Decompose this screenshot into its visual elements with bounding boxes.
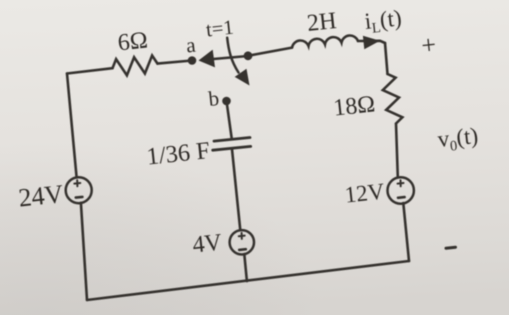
wire node b to capacitor: [227, 101, 232, 139]
wire right top corner down: [385, 43, 388, 74]
wire 18ohm to 12V source: [396, 124, 398, 178]
4V minus sign: [239, 248, 246, 251]
wire bottom rail: [87, 261, 409, 300]
capacitor 1/36F bottom plate: [213, 146, 251, 150]
wire 24V to bottom left corner: [81, 203, 87, 300]
voltage source 4V circle: [230, 230, 254, 254]
svg-text:18Ω: 18Ω: [332, 91, 376, 121]
24V plus sign: [74, 180, 80, 186]
minus sign of vo(t): [446, 247, 456, 248]
switch motion arrowhead: [235, 69, 250, 86]
svg-text:t=1: t=1: [205, 17, 235, 42]
voltage source 12V circle: [388, 177, 414, 203]
wire 12V to bottom right corner: [403, 203, 409, 261]
12V plus sign: [398, 180, 404, 186]
node a dot: [188, 56, 197, 65]
svg-text:4V: 4V: [191, 230, 224, 259]
svg-text:+: +: [420, 30, 438, 60]
switch pivot dot: [244, 51, 253, 60]
4V plus sign: [239, 233, 245, 239]
switch blade arrowhead: [199, 50, 216, 68]
wire inductor to corner: [358, 41, 385, 43]
capacitor 1/36F top plate: [214, 138, 250, 142]
node b dot: [222, 97, 231, 106]
wire left side down: [67, 74, 77, 178]
wire 4V to bottom rail: [244, 254, 247, 281]
wire resistor to node a: [158, 61, 193, 64]
svg-text:12V: 12V: [344, 179, 386, 208]
svg-text:6Ω: 6Ω: [117, 28, 149, 57]
voltage source 24V circle: [66, 177, 92, 203]
wire top-left horizontal: [67, 68, 113, 73]
24V minus sign: [76, 196, 83, 199]
12V minus sign: [398, 196, 405, 199]
resistor 6ohm: [113, 56, 158, 76]
inductor 2H: [292, 35, 358, 47]
resistor 18ohm: [383, 74, 403, 124]
svg-text:2H: 2H: [306, 8, 338, 37]
switch motion arc: [227, 38, 238, 73]
wire capacitor to 4V source: [232, 148, 240, 230]
wire pivot to inductor: [248, 48, 292, 56]
switch blade wire: [214, 56, 249, 59]
current arrow iL: [363, 36, 380, 50]
svg-text:24V: 24V: [17, 179, 65, 213]
